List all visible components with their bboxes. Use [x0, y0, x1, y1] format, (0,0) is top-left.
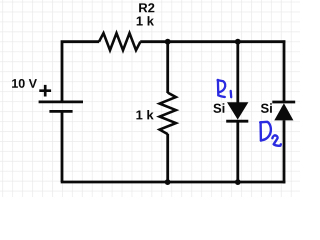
resistor 1 k (vertical zigzag)	[160, 93, 176, 135]
battery plus sign	[39, 85, 51, 97]
annotation D2 (blue handwritten)	[260, 122, 281, 146]
diode D1 triangle (anode, pointing down)	[227, 102, 248, 119]
label 1 k (R2 value)	[137, 16, 154, 25]
annotation D1 (blue handwritten)	[218, 80, 232, 97]
battery V1 negative plate (short)	[49, 110, 72, 113]
diode D1 cathode bar	[226, 120, 248, 123]
junction node bottom D1	[235, 179, 241, 185]
junction node top middle	[165, 39, 171, 45]
diode D2 triangle (anode, pointing up)	[274, 103, 293, 120]
diode D2 cathode bar	[272, 101, 295, 104]
label Si (D2)	[261, 103, 272, 113]
wire D2 branch top (right edge)	[283, 40, 286, 102]
junction node bottom middle	[165, 179, 171, 185]
label 10 V	[12, 79, 37, 88]
wire D2 branch bottom	[283, 120, 286, 183]
wire bottom rail	[61, 181, 286, 184]
wire D1 branch top	[236, 42, 239, 103]
wire battery negative down to bottom-left corner	[61, 111, 64, 182]
junction node top D1	[235, 39, 241, 45]
wire middle branch top	[166, 42, 169, 93]
wire middle branch bottom	[166, 134, 169, 182]
resistor R2 (horizontal zigzag)	[99, 33, 140, 50]
wire from R2 to top-right corner	[140, 40, 285, 43]
label 1 k (middle resistor value)	[136, 110, 153, 119]
label R2	[139, 3, 154, 12]
label Si (D1)	[213, 103, 224, 113]
wire battery positive up to top-left corner and across to R2	[62, 42, 99, 102]
battery V1 positive plate (long)	[39, 101, 83, 104]
wire D1 branch bottom	[236, 121, 239, 182]
